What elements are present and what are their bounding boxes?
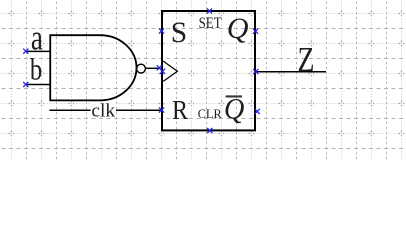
wire input b bbox=[26, 84, 50, 86]
net marker X at Q-bar pin bbox=[255, 109, 260, 114]
wire clk bbox=[49, 109, 161, 111]
wire output Z bbox=[256, 71, 327, 73]
net marker X at input a bbox=[23, 49, 28, 54]
clk text background bbox=[91, 102, 116, 117]
svg-text:S: S bbox=[171, 17, 187, 49]
net marker X at Z wire start bbox=[253, 69, 258, 74]
net marker X at clock wire end bbox=[157, 65, 162, 70]
svg-text:Q: Q bbox=[227, 13, 249, 45]
Q-bar overline bbox=[226, 95, 242, 97]
net marker X at bottom center pin bbox=[207, 128, 212, 133]
net marker X at R pin bbox=[159, 107, 164, 112]
wire NAND output to clock pin bbox=[145, 67, 160, 69]
net marker X at clock pin bbox=[160, 69, 165, 74]
svg-text:Z: Z bbox=[298, 40, 315, 79]
flip-flop U2 body bbox=[162, 11, 255, 130]
svg-text:R: R bbox=[172, 94, 189, 125]
NAND output bubble bbox=[137, 64, 146, 73]
net marker X at input b bbox=[23, 82, 28, 87]
svg-text:Q: Q bbox=[224, 93, 245, 125]
svg-text:clk: clk bbox=[91, 100, 115, 121]
svg-text:CLR: CLR bbox=[198, 106, 222, 121]
net marker X at top center pin bbox=[207, 8, 212, 13]
net marker X at S pin bbox=[159, 28, 164, 33]
net marker X at Q pin bbox=[253, 29, 258, 34]
svg-text:SET: SET bbox=[199, 15, 222, 32]
wire input a bbox=[26, 50, 50, 52]
NAND gate U1 bbox=[50, 35, 136, 100]
flip-flop clock triangle bbox=[163, 61, 177, 81]
svg-text:b: b bbox=[30, 52, 42, 86]
